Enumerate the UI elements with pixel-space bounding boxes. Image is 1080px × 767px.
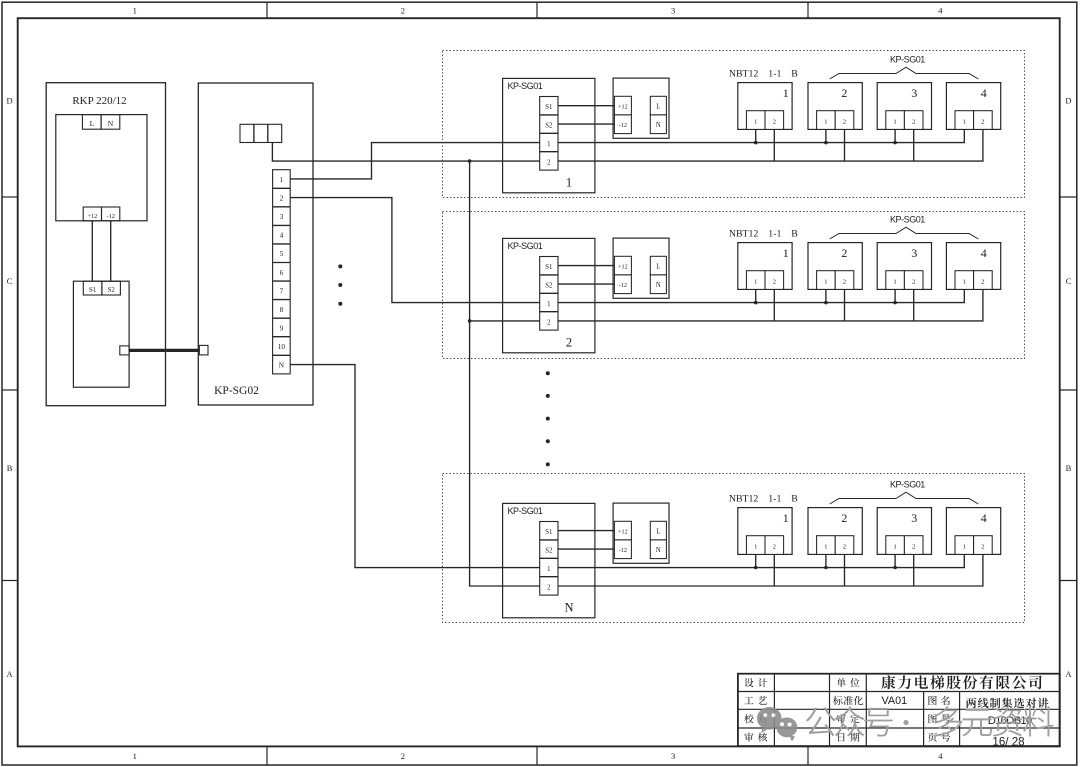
svg-text:1: 1 [783,86,789,100]
riser terminal 2 unit 1 [773,129,775,161]
svg-text:KP-SG01: KP-SG01 [890,214,925,224]
svg-text:1: 1 [893,544,896,551]
outstation NBT12 unit 2 group 1 [808,83,862,130]
label approve [837,714,846,723]
svg-text:N: N [108,119,114,128]
svg-text:1: 1 [754,279,757,286]
svg-text:1: 1 [963,119,966,126]
RKP output unit [73,281,129,387]
svg-text:1: 1 [547,566,550,573]
svg-text:2: 2 [841,246,847,260]
drawing title two-wire collective selective intercom [966,698,976,709]
svg-text:2: 2 [566,336,572,350]
label standardization [833,696,842,705]
svg-text:2: 2 [547,584,551,591]
brace KP-SG01 over units 2-4 [830,492,979,504]
outstation NBT12 unit 4 group 2 [946,243,1000,290]
svg-text:B: B [791,493,798,504]
outstation NBT12 unit 3 group N [877,508,931,555]
unit terminal 1 [746,111,765,130]
unit terminal 2 [765,536,784,555]
svg-text:2: 2 [841,86,847,100]
label date [838,733,844,741]
svg-text:2: 2 [912,119,915,126]
title block [738,674,1060,746]
svg-text:2: 2 [843,279,846,286]
unit terminal 1 [955,271,974,290]
svg-text:KP-SG01: KP-SG01 [508,506,543,516]
svg-text:L: L [90,119,95,128]
KP-SG01 terminal strip S1 S2 1 2 [540,97,558,171]
svg-text:VA01: VA01 [881,695,907,707]
riser terminal 2 unit 1 [773,289,775,321]
power adapter box group N [613,503,669,563]
adapter terminal +12 [614,521,631,540]
svg-text:-12: -12 [619,282,627,289]
svg-text:2: 2 [912,279,915,286]
junction unit 3 bus 1 [893,301,897,305]
svg-text:B: B [1066,463,1072,473]
svg-text:B: B [791,228,798,239]
svg-text:2: 2 [981,119,984,126]
svg-text:NBT12: NBT12 [729,493,758,504]
svg-text:10: 10 [278,342,286,351]
unit terminal 1 [886,536,905,555]
svg-text:KP-SG01: KP-SG01 [890,54,925,64]
unit terminal 1 [955,536,974,555]
wire signal N from KP-SG02 terminal N [290,365,964,568]
junction unit 2 bus 1 [824,301,828,305]
svg-text:3: 3 [671,751,675,761]
label process [744,697,753,704]
wire common bus group 2 [470,289,983,321]
unit terminal 1 [955,111,974,130]
riser terminal 1 unit 1 [755,554,757,567]
adapter terminal L [650,256,666,275]
svg-text:2: 2 [981,279,984,286]
outstation NBT12 unit 1 group N [738,508,792,555]
KP-SG01 terminal strip S1 S2 1 2 [540,257,558,331]
KP-SG01 terminal strip S1 S2 1 2 [540,522,558,596]
unit terminal 1 [817,111,836,130]
riser terminal 2 unit 3 [913,289,915,321]
svg-text:1: 1 [754,544,757,551]
svg-text:1: 1 [963,279,966,286]
KP-SG02 top terminal strip [240,124,282,142]
svg-text:1: 1 [893,119,896,126]
svg-text:S2: S2 [545,548,553,555]
riser terminal 1 unit 1 [755,129,757,142]
outstation NBT12 unit 4 group N [946,508,1000,555]
svg-text:N: N [656,547,661,554]
junction unit 3 bus 1 [893,141,897,145]
svg-text:1-1: 1-1 [768,493,781,504]
svg-text:2: 2 [841,511,847,525]
unit terminal 1 [746,271,765,290]
svg-text:N: N [656,282,661,289]
svg-text:RKP 220/12: RKP 220/12 [72,95,126,107]
label drawing name [928,696,936,705]
svg-text:S2: S2 [545,123,553,130]
svg-text:2: 2 [280,194,284,203]
svg-text:KP-SG01: KP-SG01 [508,241,543,251]
adapter terminal +12 [614,96,631,115]
wire signal 2 from KP-SG02 terminal 2 [290,198,964,303]
unit terminal 1 [886,271,905,290]
riser terminal 2 unit 2 [844,554,846,586]
svg-text:A: A [7,669,14,679]
svg-text:1: 1 [566,176,572,190]
outstation NBT12 unit 2 group 2 [808,243,862,290]
trunk cable RKP to KP-SG02 [129,349,200,352]
svg-text:1: 1 [963,544,966,551]
junction at common bus group 1 [468,159,472,163]
svg-text:1: 1 [547,301,550,308]
adapter terminal -12 [614,540,631,559]
svg-text:2: 2 [773,119,776,126]
svg-text:2: 2 [547,159,551,166]
svg-text:2: 2 [547,319,551,326]
junction at common bus group 2 [468,319,472,323]
svg-text:4: 4 [280,231,284,240]
riser terminal 1 unit 2 [825,289,827,302]
wire S1 to +12 [558,265,614,267]
unit terminal 1 [886,111,905,130]
svg-text:KP-SG02: KP-SG02 [214,385,259,397]
svg-text:S1: S1 [545,264,552,271]
svg-text:1: 1 [893,279,896,286]
svg-text:C: C [7,276,13,286]
adapter terminal N [650,275,666,294]
controller KP-SG02 [198,83,313,405]
terminal S1 [83,281,102,295]
svg-text:+12: +12 [618,103,628,110]
svg-text:2: 2 [843,544,846,551]
svg-text:S2: S2 [545,283,553,290]
riser terminal 1 unit 2 [825,554,827,567]
junction unit 1 bus 1 [754,566,758,570]
svg-text:1: 1 [280,175,284,184]
svg-text:1-1: 1-1 [768,68,781,79]
svg-text:D: D [1065,95,1071,105]
svg-text:-12: -12 [619,547,627,554]
riser terminal 1 unit 3 [894,554,896,567]
wire S2 to -12 [558,283,614,285]
adapter terminal -12 [614,275,631,294]
wire S1 to +12 [558,105,614,107]
KP-SG02 terminal strip 1..N [273,170,291,374]
unit terminal 2 [974,536,993,555]
wire common riser to groups 2 and N [470,161,983,586]
label review [744,732,753,741]
unit terminal 1 [817,536,836,555]
unit terminal 2 [904,271,923,290]
junction unit 3 bus 1 [893,566,897,570]
svg-text:B: B [791,68,798,79]
svg-text:4: 4 [981,86,987,100]
svg-text:L: L [656,529,660,536]
riser terminal 2 unit 1 [773,554,775,586]
riser terminal 2 unit 2 [844,129,846,161]
wire common from top strip [272,129,983,161]
adapter terminal L [650,521,666,540]
adapter terminal N [650,115,666,134]
riser terminal 1 unit 3 [894,289,896,302]
wire S2 to -12 [558,123,614,125]
junction unit 2 bus 1 [824,141,828,145]
outstation NBT12 unit 1 group 1 [738,83,792,130]
riser terminal 1 unit 1 [755,289,757,302]
terminal N [101,115,120,130]
floor group N dashed box [443,474,1025,623]
unit terminal 1 [817,271,836,290]
svg-text:KP-SG01: KP-SG01 [508,81,543,91]
terminal +12 [83,207,101,221]
unit terminal 2 [765,271,784,290]
watermark wechat icon [757,707,797,742]
svg-text:KP-SG01: KP-SG01 [890,479,925,489]
terminal -12 [102,207,120,221]
adapter terminal -12 [614,115,631,134]
riser terminal 2 unit 3 [913,554,915,586]
unit terminal 2 [974,111,993,130]
label proofread [744,714,753,723]
wire S1 to +12 [558,530,614,532]
svg-text:16/ 28: 16/ 28 [992,736,1024,749]
svg-text:L: L [656,104,660,111]
adapter terminal +12 [614,256,631,275]
connector plug KP-SG02 side [199,345,208,355]
svg-text:S2: S2 [108,287,116,294]
label page number [928,732,937,741]
outstation NBT12 unit 4 group 1 [946,83,1000,130]
power adapter box group 2 [613,238,669,298]
svg-text:1: 1 [547,141,550,148]
svg-text:S1: S1 [89,287,96,294]
wire S2 to -12 [558,548,614,550]
junction unit 1 bus 1 [754,301,758,305]
unit terminal 2 [835,271,854,290]
svg-text:1: 1 [754,119,757,126]
floor group 1 dashed box [443,51,1025,198]
svg-text:2: 2 [401,751,405,761]
riser terminal 2 unit 3 [913,129,915,161]
svg-text:S1: S1 [545,529,552,536]
svg-text:N: N [656,122,661,129]
svg-text:NBT12: NBT12 [729,228,758,239]
unit terminal 2 [835,111,854,130]
svg-text:3: 3 [671,5,675,15]
adapter terminal N [650,540,666,559]
svg-text:8: 8 [280,305,284,314]
svg-text:2: 2 [773,279,776,286]
junction unit 2 bus 1 [824,566,828,570]
unit terminal 1 [746,536,765,555]
svg-text:B: B [7,463,13,473]
company name Canny Elevator Co Ltd [881,675,895,689]
svg-text:4: 4 [938,5,943,15]
svg-text:3: 3 [911,246,917,260]
terminal S2 [102,281,121,295]
junction unit 1 bus 1 [754,141,758,145]
outstation NBT12 unit 1 group 2 [738,243,792,290]
indoor unit KP-SG01 group 1 [503,78,595,192]
svg-text:4: 4 [938,751,943,761]
svg-text:1-1: 1-1 [768,228,781,239]
label design [744,678,753,687]
unit terminal 2 [904,536,923,555]
svg-text:2: 2 [773,544,776,551]
outstation NBT12 unit 3 group 2 [877,243,931,290]
svg-text:+12: +12 [87,213,97,220]
svg-text:1: 1 [133,5,137,15]
svg-text:+12: +12 [618,263,628,270]
indoor unit KP-SG01 group 2 [503,238,595,352]
svg-text:1: 1 [824,544,827,551]
riser terminal 2 unit 2 [844,289,846,321]
watermark text gongzhonghao duoyuan ziliao [806,707,836,736]
unit terminal 2 [974,271,993,290]
wire +12 to S1 [91,221,93,281]
svg-text:1: 1 [783,511,789,525]
svg-text:1: 1 [133,751,137,761]
svg-text:3: 3 [280,212,284,221]
svg-text:N: N [279,361,285,370]
label unit [837,678,846,687]
power supply RKP 220/12 [46,83,165,406]
riser terminal 1 unit 2 [825,129,827,142]
svg-text:S1: S1 [545,104,552,111]
RKP transformer unit [56,115,147,221]
ellipsis continuation dots middle [546,371,550,375]
svg-text:3: 3 [911,511,917,525]
unit terminal 2 [765,111,784,130]
svg-text:-12: -12 [619,122,627,129]
indoor unit KP-SG01 group N [503,503,595,617]
svg-text:L: L [656,264,660,271]
svg-text:9: 9 [280,324,284,333]
connector plug RKP side [120,346,129,355]
unit terminal 2 [835,536,854,555]
outstation NBT12 unit 2 group N [808,508,862,555]
brace KP-SG01 over units 2-4 [830,67,979,79]
svg-text:5: 5 [280,249,284,258]
brace KP-SG01 over units 2-4 [830,227,979,239]
riser terminal 1 unit 3 [894,129,896,142]
svg-text:4: 4 [981,246,987,260]
svg-text:6: 6 [280,268,284,277]
svg-text:3: 3 [911,86,917,100]
svg-text:4: 4 [981,511,987,525]
label drawing number [928,714,936,723]
svg-text:2: 2 [912,544,915,551]
wire signal 1 from KP-SG02 terminal 1 [290,129,964,179]
unit terminal 2 [904,111,923,130]
adapter terminal L [650,96,666,115]
power adapter box group 1 [613,78,669,138]
svg-text:7: 7 [280,286,284,295]
svg-text:2: 2 [981,544,984,551]
svg-text:2: 2 [843,119,846,126]
svg-text:+12: +12 [618,528,628,535]
ellipsis continuation dots left [338,264,342,268]
svg-text:-12: -12 [106,213,114,220]
svg-text:2: 2 [401,5,405,15]
svg-text:N: N [564,601,573,615]
floor group 2 dashed box [443,212,1025,359]
svg-text:C: C [1066,276,1072,286]
svg-text:D: D [7,95,13,105]
svg-text:1: 1 [824,119,827,126]
svg-text:NBT12: NBT12 [729,68,758,79]
svg-text:A: A [1065,669,1072,679]
wire -12 to S2 [110,221,112,281]
terminal L [82,115,101,130]
svg-text:1: 1 [783,246,789,260]
outstation NBT12 unit 3 group 1 [877,83,931,130]
svg-text:1: 1 [824,279,827,286]
